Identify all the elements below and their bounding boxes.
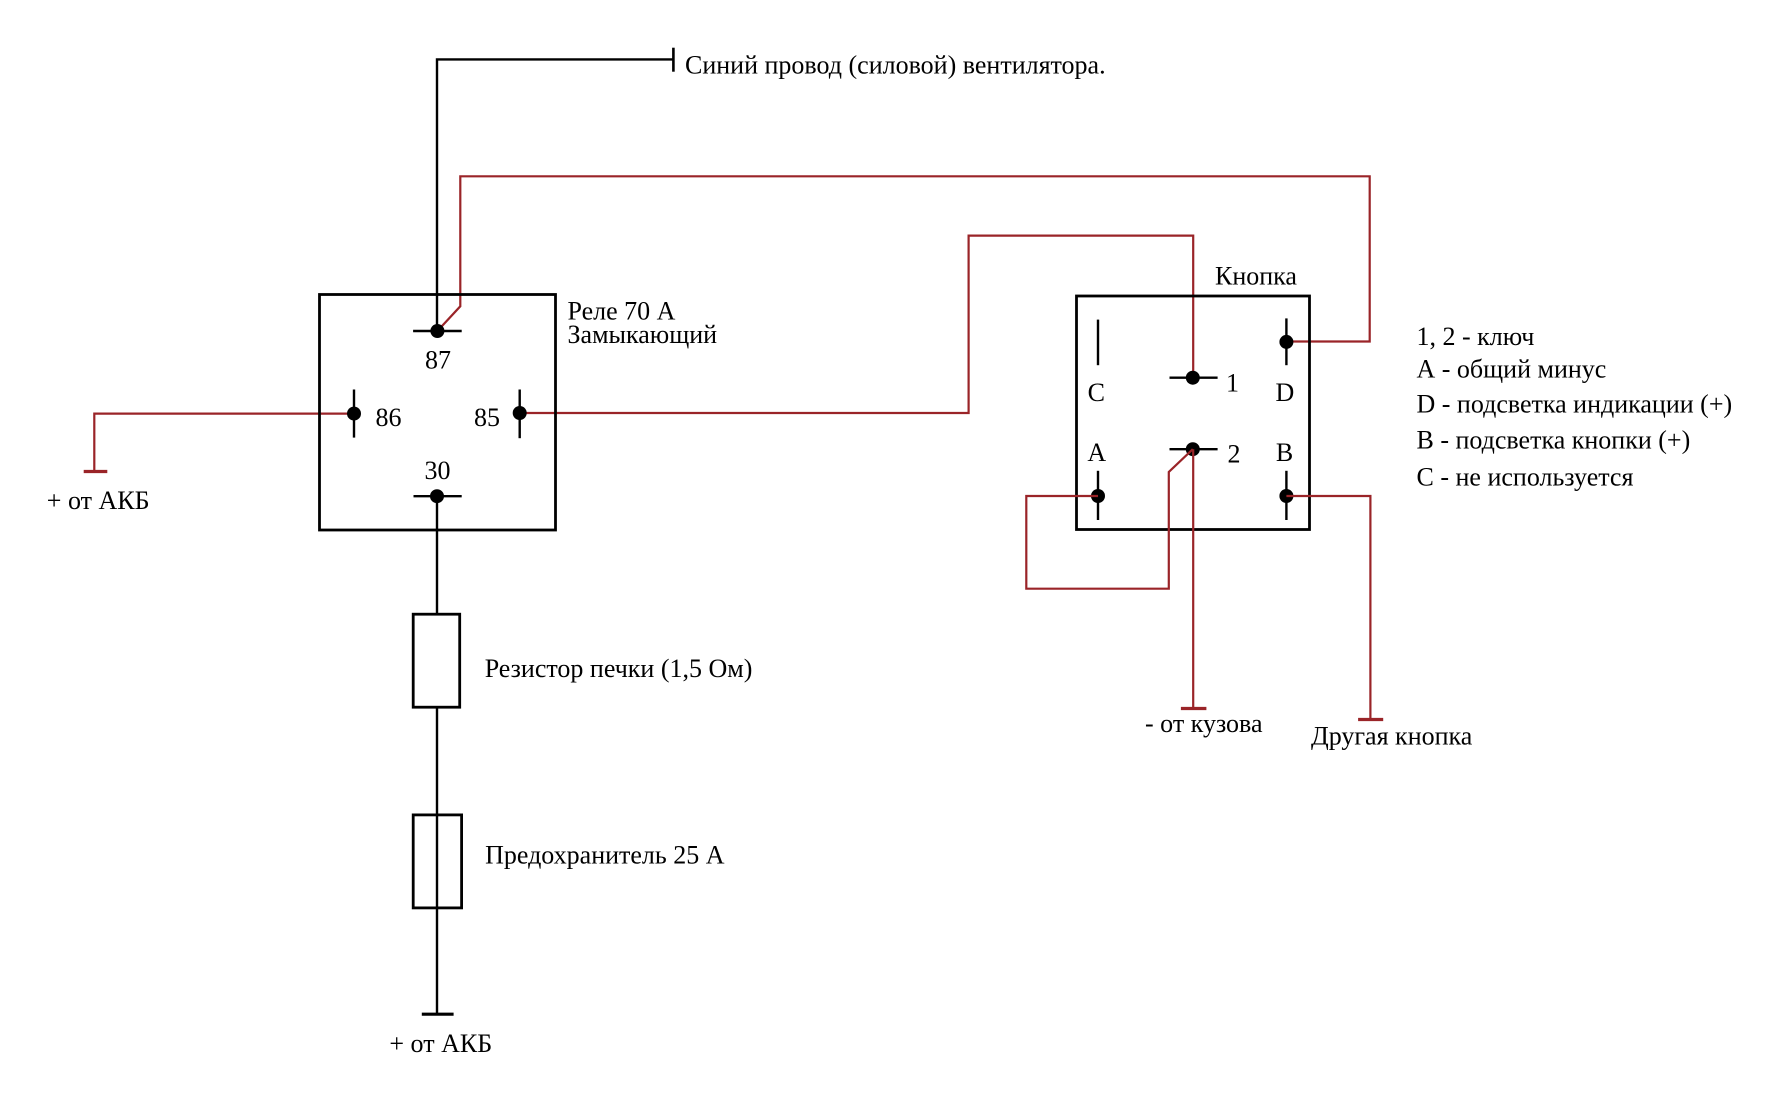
wire: red from pin 87 to button pin D [437,176,1369,341]
button pin 1 [1170,371,1218,385]
wire: black from pin 30 down to resistor [436,496,438,614]
terminal bar: Другая кнопка [1358,718,1383,721]
svg-text:А: А [1087,438,1106,467]
svg-text:- от кузова: - от кузова [1145,709,1263,738]
terminal bar: +АКБ left [84,470,108,473]
button pin 2 [1170,442,1218,456]
svg-text:1, 2 - ключ: 1, 2 - ключ [1417,322,1535,351]
svg-text:86: 86 [376,403,402,432]
svg-text:В: В [1276,438,1293,467]
relay pin 85 [513,390,527,439]
terminal bar: +АКБ bottom [422,1013,454,1016]
svg-text:1: 1 [1226,369,1239,398]
terminal bar: - от кузова [1181,707,1207,710]
svg-text:Синий провод (силовой) вентиля: Синий провод (силовой) вентилятора. [685,50,1106,79]
button pin B [1279,471,1293,520]
wire: red loop from pin A to pin 2 [1026,449,1193,589]
wire: red from pin 2 down to body ground terminal [1192,449,1194,708]
wire: red from pin 86 left to +АКБ terminal [94,414,354,472]
svg-text:D: D [1276,378,1295,407]
button pin D [1279,318,1293,365]
svg-text:Кнопка: Кнопка [1215,262,1297,291]
svg-text:D - подсветка индикации (+): D - подсветка индикации (+) [1417,390,1733,419]
relay pin 87 [413,324,462,338]
svg-text:В - подсветка кнопки (+): В - подсветка кнопки (+) [1417,426,1691,455]
svg-text:2: 2 [1228,439,1241,468]
svg-text:С - не используется: С - не используется [1417,463,1634,492]
wire: black fan power wire from relay pin 87 up and right [437,59,673,331]
svg-text:А - общий минус: А - общий минус [1417,355,1607,384]
svg-text:85: 85 [474,403,500,432]
svg-text:Замыкающий: Замыкающий [568,320,718,349]
svg-text:+ от АКБ: + от АКБ [389,1029,492,1058]
wire: black from resistor down through fuse to +АКБ terminal [436,707,438,1014]
button pin C (not used) [1097,320,1099,366]
wire: red from pin 85 to button pin 1 [520,236,1193,413]
relay pin 86 [347,390,361,438]
button box (Кнопка) [1077,296,1310,530]
fuse F1 (Предохранитель 25 А) [413,815,461,908]
relay K1 box [320,295,556,531]
button pin A [1091,471,1105,520]
svg-text:С: С [1088,378,1105,407]
relay pin 30 [414,489,462,503]
svg-text:Предохранитель 25 А: Предохранитель 25 А [485,841,725,870]
svg-text:Другая кнопка: Другая кнопка [1311,722,1473,751]
wire: red from pin B right and down to other button [1286,496,1370,720]
svg-text:Резистор печки (1,5 Ом): Резистор печки (1,5 Ом) [485,654,753,683]
resistor R1 (Резистор печки 1,5 Ом) [413,614,460,707]
terminal tick: blue fan wire end [672,48,675,72]
svg-text:+ от АКБ: + от АКБ [47,486,150,515]
svg-text:87: 87 [425,346,451,375]
svg-text:30: 30 [425,456,451,485]
